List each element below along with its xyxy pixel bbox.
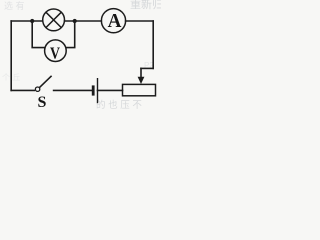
faint bleed-through smudge right-middle	[144, 61, 154, 70]
voltmeter V	[45, 40, 67, 62]
rheostat R	[123, 77, 156, 96]
switch S	[35, 76, 51, 111]
svg-text:的 也 压 不: 的 也 压 不	[96, 99, 142, 110]
wire lamp-to-ammeter	[65, 20, 102, 22]
faint bleed-through smudge top-left	[4, 0, 25, 11]
faint bleed-through smudge left-middle	[2, 73, 20, 82]
svg-text:S: S	[38, 94, 47, 110]
node A (left junction)	[30, 19, 34, 23]
svg-text:重新归: 重新归	[130, 0, 161, 11]
lamp	[43, 9, 65, 31]
wire voltmeter left drop	[32, 21, 45, 48]
wire top-left horizontal	[11, 20, 43, 22]
wire slider stem	[140, 68, 142, 77]
svg-text:选 有: 选 有	[4, 0, 25, 11]
wire left vertical	[10, 21, 12, 90]
svg-text:V: V	[50, 43, 61, 62]
svg-text:A: A	[108, 10, 122, 32]
wire bottom-left to switch	[11, 89, 34, 91]
wire ammeter-to-right-corner	[126, 20, 154, 22]
ammeter A	[101, 9, 125, 33]
battery cell	[93, 78, 97, 103]
wire voltmeter right rise	[66, 21, 75, 48]
node B (right junction)	[73, 19, 77, 23]
wire right vertical	[152, 21, 154, 68]
wire bend to slider	[141, 67, 153, 69]
faint bleed-through smudge top-right	[130, 0, 163, 11]
faint bleed-through smudge bottom-right	[96, 99, 142, 111]
wire switch to battery	[54, 89, 92, 91]
slider arrowhead	[138, 77, 145, 84]
wire battery to rheostat	[98, 89, 123, 91]
